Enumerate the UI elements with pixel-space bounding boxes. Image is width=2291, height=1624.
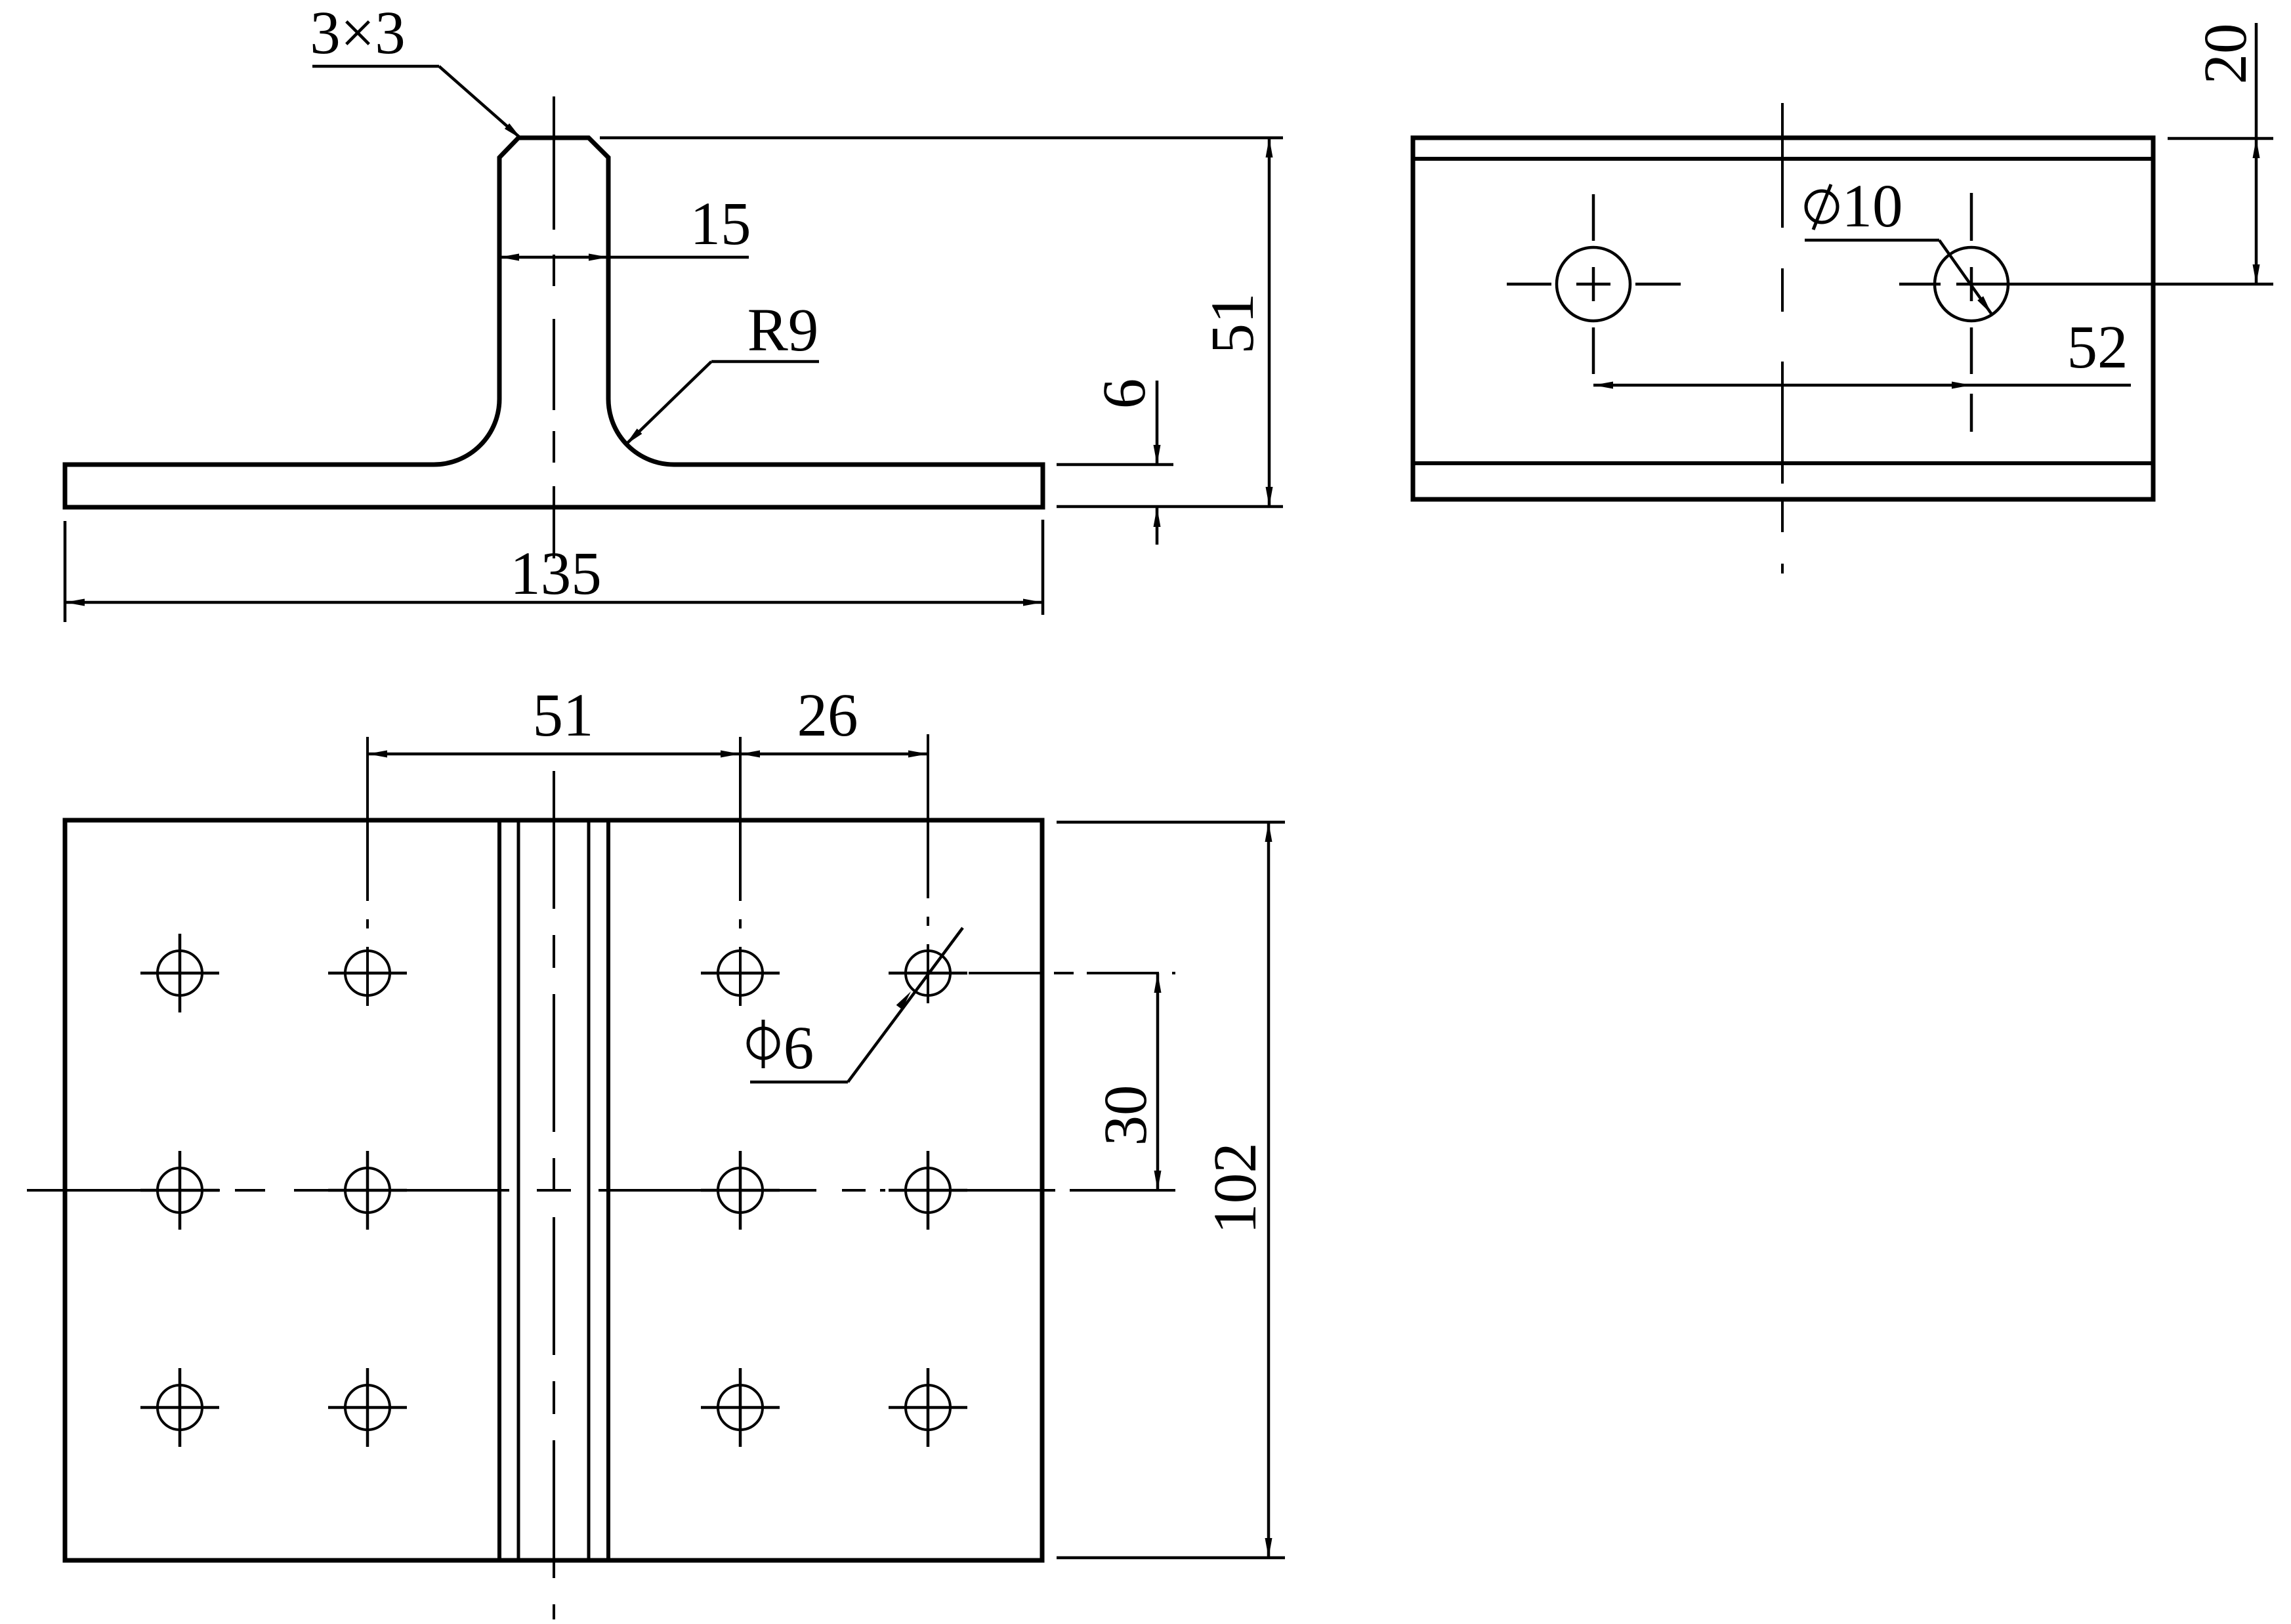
- dim 51 arrow bottom: [1266, 487, 1273, 507]
- dim 6 top extension line: [1057, 463, 1173, 467]
- dim 6 arrow lower (pointing up): [1154, 507, 1161, 527]
- side view outline: [1413, 138, 2153, 499]
- dim 102 arrow bottom: [1265, 1538, 1272, 1558]
- leader dia10 diagonal: [1939, 240, 1992, 314]
- hole right circle: [1935, 247, 2008, 321]
- dim 51 top extension line: [600, 136, 1283, 140]
- hole right centerlines: [1899, 193, 2273, 432]
- svg-text:15: 15: [690, 190, 751, 258]
- stem edge line right: [606, 820, 610, 1560]
- leader R9 underline: [711, 360, 819, 364]
- dim 51 line: [1268, 138, 1271, 507]
- chamfer edge line: [1413, 157, 2153, 161]
- dim 15 arrow left: [499, 254, 519, 261]
- dim 30 arrow bottom: [1154, 1171, 1162, 1190]
- chamfer line right: [587, 820, 591, 1560]
- leader dia10 underline: [1805, 239, 1939, 242]
- dim 51/26 line: [368, 753, 928, 756]
- dim 102 bottom extension line: [1057, 1556, 1285, 1560]
- dim 135 arrow right: [1023, 599, 1043, 606]
- leader 3x3 diagonal: [439, 66, 522, 139]
- dim 52 arrow left: [1593, 382, 1613, 389]
- hole crosses: [140, 934, 967, 1447]
- leader dia6 diagonal: [848, 928, 963, 1082]
- dim 52 line: [1593, 384, 2131, 387]
- dim 51 arrow right: [721, 751, 740, 758]
- leader 3x3 underline: [312, 65, 439, 68]
- dim 51 arrow left: [368, 751, 387, 758]
- leader R9 diagonal: [625, 362, 711, 445]
- dim 102 top extension line: [1057, 821, 1285, 824]
- dim 15 line: [499, 256, 749, 259]
- dim 30 line: [1156, 973, 1160, 1190]
- vertical centerline: [553, 771, 555, 1619]
- svg-text:30: 30: [1092, 1085, 1160, 1146]
- dim 102 line: [1267, 822, 1271, 1558]
- leader dia6 arrow: [896, 989, 914, 1010]
- dim 6 line lower part: [1156, 507, 1159, 545]
- dim 135 arrow left: [65, 599, 85, 606]
- dim 20 arrow bottom (pointing down): [2253, 264, 2260, 284]
- dim 30 top extension centerline: [969, 972, 1175, 974]
- dim 30 arrow top: [1154, 973, 1162, 993]
- dim 20 line: [2255, 23, 2258, 284]
- svg-text:6: 6: [1091, 379, 1158, 409]
- hole left centerlines: [1507, 194, 1681, 374]
- col4 extension centerline: [927, 734, 929, 1017]
- dim 52 arrow right: [1952, 382, 1971, 389]
- T-profile outline: [65, 138, 1043, 507]
- chamfer line left: [517, 820, 520, 1560]
- svg-text:R9: R9: [747, 297, 819, 364]
- dim 135 left extension line: [64, 521, 67, 622]
- leader dia6 underline: [750, 1081, 848, 1084]
- vertical centerline: [1781, 103, 1784, 573]
- svg-text:51: 51: [1199, 293, 1267, 354]
- dim 20 top extension line: [2168, 137, 2273, 140]
- dim 51 bottom extension line (shared with dim 6): [1057, 505, 1283, 509]
- col2 extension centerline: [366, 737, 369, 1017]
- dim 6 arrow upper (pointing down): [1154, 445, 1161, 465]
- plate outline: [65, 820, 1042, 1560]
- svg-text:102: 102: [1202, 1142, 1269, 1234]
- label dia10 symbol: [1806, 184, 1838, 230]
- horizontal centerline: [27, 1189, 1175, 1192]
- dim 26 arrow left: [740, 751, 760, 758]
- leader 3x3 arrow: [505, 123, 524, 142]
- col3 extension centerline: [739, 737, 742, 1017]
- svg-text:10: 10: [1842, 173, 1903, 240]
- dim 15 arrow right: [589, 254, 608, 261]
- holes grid: [158, 951, 950, 1430]
- dim 135 right extension line: [1041, 520, 1045, 615]
- dim 20 arrow top (pointing up): [2253, 138, 2260, 158]
- stem edge line left: [497, 820, 501, 1560]
- svg-text:52: 52: [2067, 314, 2128, 381]
- hole left circle: [1557, 247, 1630, 321]
- dim 6 line upper part: [1156, 381, 1159, 465]
- label dia6 symbol: [748, 1020, 778, 1068]
- dim 102 arrow top: [1265, 822, 1272, 842]
- svg-text:3×3: 3×3: [310, 0, 405, 67]
- svg-text:51: 51: [533, 682, 594, 749]
- dim 135 line: [65, 601, 1043, 604]
- flange edge line: [1413, 461, 2153, 465]
- leader dia10 arrow: [1977, 296, 1994, 316]
- svg-text:135: 135: [510, 540, 602, 608]
- svg-text:26: 26: [797, 682, 858, 749]
- dim 51 arrow top: [1266, 138, 1273, 157]
- svg-text:20: 20: [2192, 24, 2259, 85]
- svg-text:6: 6: [784, 1014, 814, 1082]
- leader R9 arrow: [623, 428, 642, 448]
- vertical centerline of stem: [553, 96, 555, 558]
- dim 26 arrow right: [908, 751, 928, 758]
